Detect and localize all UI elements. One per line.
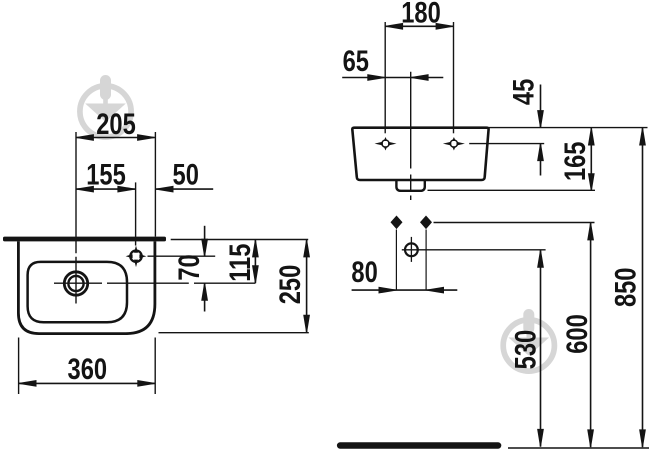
180 extension line left [384, 22, 386, 133]
extension line basin right top [154, 132, 156, 237]
dimension 65 line [342, 77, 443, 79]
basin top extension line to right [489, 127, 648, 129]
svg-text:250: 250 [273, 265, 306, 305]
dimension 115 line [254, 240, 256, 284]
basin outer outline [18, 241, 155, 333]
dimension 360 line [19, 382, 156, 384]
svg-text:600: 600 [560, 314, 593, 354]
faucet hole symbol [126, 246, 147, 268]
template vertical right [425, 230, 427, 291]
svg-text:80: 80 [351, 255, 377, 288]
mounting hole right (spiked) [443, 137, 465, 151]
bolt diamond left [391, 216, 403, 230]
dimension 850 line [642, 128, 644, 448]
mounting hole left (spiked) [375, 137, 397, 151]
floor bar [337, 442, 501, 448]
dimension 600 line [590, 223, 592, 448]
bolt diamond right [420, 216, 432, 230]
tab bottom extension line [428, 189, 596, 191]
diamond level extension line [434, 222, 595, 224]
svg-text:850: 850 [609, 268, 642, 308]
dimension 50 tail line [156, 188, 214, 190]
dimension 180 line [385, 25, 453, 27]
360 extension lines [18, 338, 20, 395]
watermark logo right [503, 309, 554, 371]
basin rim (thick bar) [3, 237, 166, 242]
watermark logo top-left [80, 75, 131, 137]
dimension 530 line [540, 250, 542, 447]
svg-text:115: 115 [223, 244, 256, 282]
dimension 45 arrows [540, 85, 542, 128]
svg-text:205: 205 [96, 107, 136, 140]
svg-text:50: 50 [173, 158, 199, 191]
dimension 155 line [76, 188, 135, 190]
dimension 205 line [76, 137, 155, 139]
drain inner circle [68, 276, 83, 291]
dimension 250 line [306, 240, 308, 333]
180 extension line right [453, 22, 455, 133]
svg-text:70: 70 [172, 254, 205, 280]
basin inner bowl [28, 262, 127, 322]
svg-text:530: 530 [509, 330, 542, 370]
extension line at faucet x [135, 182, 137, 245]
drain center horizontal line [54, 282, 255, 284]
centerline of side view [410, 72, 412, 200]
hole level extension line to the right [469, 143, 544, 145]
svg-text:360: 360 [68, 352, 108, 385]
svg-text:65: 65 [343, 44, 369, 77]
svg-text:45: 45 [507, 79, 540, 105]
svg-text:165: 165 [559, 142, 592, 182]
faucet hole horizontal line [148, 255, 216, 257]
dimension 70 arrows [204, 226, 206, 256]
basin bottom extension line [159, 332, 309, 334]
vertical centerline through drain [75, 132, 77, 304]
floor extension line [508, 447, 649, 449]
template vertical left [395, 230, 397, 291]
side view basin outline [352, 128, 488, 180]
dimension 165 line [590, 128, 592, 191]
drain tab under side view [396, 181, 424, 191]
rim top extension line [171, 239, 309, 241]
supply hole cross [410, 237, 412, 262]
svg-text:155: 155 [86, 158, 126, 191]
dimension 80 line [352, 289, 458, 291]
supply hole circle [405, 243, 418, 256]
svg-text:180: 180 [401, 0, 441, 29]
supply hole level extension line [402, 249, 546, 251]
drain outer circle [64, 272, 87, 295]
